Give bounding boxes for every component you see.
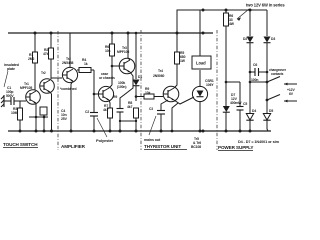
wire: D1 branch bbox=[135, 33, 137, 79]
label: D3 bbox=[271, 37, 275, 41]
wire: Tr6 collector to R10 bbox=[174, 64, 177, 88]
svg-text:D4 - D7 = 1N4001 or sim: D4 - D7 = 1N4001 or sim bbox=[238, 140, 280, 144]
svg-text:1k: 1k bbox=[84, 62, 88, 66]
wire: Tr3 emitter to 0V bbox=[71, 81, 73, 131]
svg-text:mains out: mains out bbox=[144, 138, 161, 142]
svg-text:4k7: 4k7 bbox=[103, 108, 109, 112]
resistor R10 (box) bbox=[175, 52, 180, 64]
boundary: amplifier / thyristor unit (dash-dot) bbox=[140, 30, 142, 150]
svg-text:10k: 10k bbox=[145, 91, 151, 95]
label: diode note bbox=[238, 140, 280, 144]
wire: Tr4 emitter via R7 box to 0V bbox=[109, 100, 110, 108]
svg-text:THYRISTOR UNIT: THYRISTOR UNIT bbox=[144, 144, 181, 149]
resistor R1 (box) bbox=[33, 52, 38, 63]
diode D2 bbox=[247, 37, 254, 114]
node: rail junction dots top bbox=[34, 9, 252, 35]
label: R6 bbox=[105, 45, 111, 53]
label: combined note bbox=[60, 87, 76, 91]
svg-text:106Y: 106Y bbox=[206, 83, 214, 87]
svg-text:D1: D1 bbox=[138, 75, 142, 79]
capacitor C5 bbox=[237, 107, 244, 132]
svg-text:D5: D5 bbox=[269, 109, 273, 113]
label: supply volts bbox=[287, 88, 295, 96]
label: Tr2 ref bbox=[41, 71, 46, 75]
svg-text:contacts: contacts bbox=[271, 72, 284, 76]
label: changeover contacts bbox=[269, 68, 287, 76]
svg-text:25V: 25V bbox=[61, 117, 68, 121]
label: R4 bbox=[82, 58, 88, 66]
svg-text:D3: D3 bbox=[271, 37, 275, 41]
svg-text:2N5458: 2N5458 bbox=[62, 61, 73, 65]
label: C6 bbox=[251, 63, 258, 82]
svg-text:(100n): (100n) bbox=[117, 85, 126, 89]
wire: Tr6 emitter down with C3 bbox=[161, 100, 168, 110]
label: Tr4 ref bbox=[113, 95, 117, 99]
capacitor C2 bbox=[90, 113, 98, 132]
label: C5 bbox=[243, 102, 247, 106]
diode D1 bbox=[133, 80, 140, 102]
diode D3 bbox=[264, 37, 271, 114]
transistor Tr5 (upper) bbox=[119, 58, 135, 74]
transistor Tr3 bbox=[62, 67, 78, 82]
wire: R2 branch bbox=[50, 33, 52, 48]
svg-text:500V: 500V bbox=[6, 94, 14, 98]
label: D4 bbox=[252, 109, 256, 113]
label: D2 bbox=[243, 37, 247, 41]
svg-text:D2: D2 bbox=[243, 37, 247, 41]
svg-text:10M: 10M bbox=[11, 111, 18, 115]
label: touch plate bbox=[4, 63, 19, 71]
wire: upper +V rail (right) bbox=[177, 10, 267, 33]
label: TOUCH SWITCH bbox=[3, 142, 38, 147]
label: R9 bbox=[145, 87, 151, 95]
wire: gate drive to SCR bbox=[174, 97, 194, 104]
label: R/C mid bbox=[117, 81, 126, 89]
leader: series lamps arrow bbox=[237, 9, 249, 21]
svg-text:Tr4: Tr4 bbox=[158, 69, 163, 73]
svg-text:or chassis: or chassis bbox=[99, 76, 115, 80]
wire: D2 branch bbox=[249, 10, 251, 36]
transistor Tr6 bbox=[163, 86, 179, 102]
svg-text:D4: D4 bbox=[252, 109, 256, 113]
svg-text:Tr2: Tr2 bbox=[41, 71, 46, 75]
label: C4 floating bbox=[61, 109, 68, 121]
svg-text:TOUCH SWITCH: TOUCH SWITCH bbox=[3, 142, 38, 147]
svg-text:AMPLIFIER: AMPLIFIER bbox=[61, 144, 86, 149]
transistor Tr4 (lower) bbox=[98, 86, 114, 101]
svg-text:C2: C2 bbox=[85, 110, 89, 114]
wire: cross link lower bbox=[120, 120, 136, 122]
svg-text:*combined: *combined bbox=[60, 87, 76, 91]
wire: Load top to rails bbox=[199, 33, 201, 56]
label: Tr1 bbox=[20, 82, 32, 90]
label: D7 bbox=[230, 93, 242, 105]
label: POWER SUPPLY bbox=[218, 145, 253, 150]
resistor R2 (box) bbox=[49, 48, 54, 59]
boundary: thyristor unit / power supply (dash-dot) bbox=[216, 30, 218, 150]
svg-text:C5: C5 bbox=[243, 102, 247, 106]
wire: Tr2 emitter to 0V bbox=[50, 92, 52, 131]
wire: R6 branch bbox=[111, 33, 113, 44]
resistor R3 (box) bbox=[18, 108, 23, 120]
svg-text:plate: plate bbox=[7, 67, 15, 71]
wire: link to switch common bbox=[250, 81, 267, 83]
resistor R11 (dropper, box on supply line) bbox=[225, 10, 227, 13]
label: Tr6 bbox=[153, 69, 164, 78]
svg-text:MPF105: MPF105 bbox=[20, 86, 32, 90]
wire: Tr5 base from R6 node bbox=[112, 65, 119, 67]
svg-text:POWER SUPPLY: POWER SUPPLY bbox=[218, 145, 253, 150]
diode D4 bbox=[246, 114, 253, 132]
svg-text:Polyester: Polyester bbox=[96, 138, 114, 143]
zener D7 bbox=[223, 106, 230, 131]
svg-text:Load: Load bbox=[196, 61, 206, 66]
label: R3 bbox=[11, 107, 18, 115]
label: Tr types note bbox=[191, 137, 201, 149]
svg-text:100n: 100n bbox=[251, 78, 258, 82]
label: C2 bbox=[85, 110, 89, 114]
wire: 0V bottom rail bbox=[8, 130, 271, 132]
label: R8 bbox=[127, 101, 133, 109]
label: D1 bbox=[138, 75, 142, 79]
label: R7 bbox=[103, 104, 109, 112]
svg-text:4k7: 4k7 bbox=[127, 105, 133, 109]
label: Tr5 bbox=[117, 46, 129, 54]
label: THYRISTOR UNIT bbox=[144, 144, 181, 149]
resistor R9 (horizontal box, Tr6 base) bbox=[136, 96, 144, 98]
resistor R4 (horizontal box) bbox=[77, 69, 79, 71]
label: two 12V 6W in series bbox=[246, 3, 285, 8]
wire: R1 branch bbox=[34, 33, 36, 52]
label: D5 bbox=[269, 109, 273, 113]
wire: SCR cathode to 0V bbox=[199, 101, 201, 131]
load box bbox=[192, 56, 211, 69]
label: R11 bbox=[229, 14, 235, 26]
svg-text:BC108: BC108 bbox=[191, 145, 201, 149]
switch S1 changeover bbox=[266, 77, 280, 102]
capacitor C1 (series, touch input) bbox=[4, 97, 26, 105]
leader: polyester bbox=[97, 118, 107, 137]
wire: gate bleed to 0V bbox=[172, 103, 178, 131]
label: C3 bbox=[149, 107, 153, 111]
preset box (emitter network) bbox=[40, 107, 47, 115]
label: CSR1 bbox=[205, 79, 214, 87]
wire: SCR anode up to Load bbox=[199, 70, 201, 87]
boundary: touch switch / amplifier (dash-dot) bbox=[57, 31, 59, 150]
thyristor CSR1 bbox=[192, 86, 207, 101]
resistor R8 (box) bbox=[134, 108, 139, 118]
wire: Tr3 base node to Tr4 stage bbox=[94, 93, 98, 95]
wire: Tr2 collector to Tr3 base bbox=[51, 78, 62, 79]
svg-text:C6: C6 bbox=[253, 63, 257, 67]
terminal: +12V upper bbox=[284, 83, 297, 86]
label: Polyester bbox=[96, 138, 114, 143]
svg-text:2N5060: 2N5060 bbox=[153, 74, 164, 78]
svg-text:two 12V 6W in series: two 12V 6W in series bbox=[246, 3, 285, 8]
wire: D3 branch bbox=[266, 10, 268, 36]
touch plate (hatched) bbox=[1, 95, 4, 107]
wire: junction to C5 branch bbox=[226, 81, 240, 83]
wire: base node down to R3 bbox=[19, 101, 21, 108]
leader: mains out bbox=[149, 116, 156, 135]
label: AMPLIFIER bbox=[61, 144, 86, 149]
node: rail junction dots bottom bbox=[19, 130, 252, 133]
wire: emitter cross link bbox=[29, 116, 48, 118]
wire: Tr4 collector up to R6 line bbox=[109, 85, 112, 88]
capacitor C3 bbox=[157, 111, 165, 132]
svg-text:C3: C3 bbox=[149, 107, 153, 111]
svg-text:10k: 10k bbox=[105, 49, 111, 53]
transistor Tr1 bbox=[26, 90, 41, 105]
svg-text:2M2: 2M2 bbox=[28, 57, 35, 61]
label: mains out bbox=[144, 138, 161, 142]
label: R10 bbox=[180, 51, 186, 63]
wire: node down to C2 bbox=[93, 70, 95, 112]
wire: +V top rail (main) bbox=[8, 32, 213, 34]
svg-text:R9: R9 bbox=[113, 95, 117, 99]
wire: Tr3 collector to rail bbox=[69, 33, 71, 67]
transistor Tr2 bbox=[40, 79, 55, 94]
capacitor C3a bbox=[117, 109, 124, 132]
label: case or chassis bbox=[99, 72, 115, 80]
svg-text:47k: 47k bbox=[43, 52, 49, 56]
label: R2 bbox=[43, 48, 49, 56]
capacitor C6 (bridge) bbox=[250, 68, 267, 76]
label: Tr3 bbox=[62, 57, 73, 65]
diode D5 bbox=[263, 114, 270, 132]
label: C1 value bbox=[6, 86, 14, 98]
label: R1 bbox=[28, 53, 35, 61]
terminal: +12V lower bbox=[284, 100, 297, 103]
resistor R6 (box) bbox=[110, 44, 115, 56]
wire: Tr5 emitter to C branch bbox=[120, 72, 133, 108]
wire: Tr1 emitter to 0V bbox=[35, 103, 37, 131]
leader: touch plate label bbox=[4, 71, 8, 87]
wire: Tr5 collector to rail bbox=[128, 33, 130, 60]
